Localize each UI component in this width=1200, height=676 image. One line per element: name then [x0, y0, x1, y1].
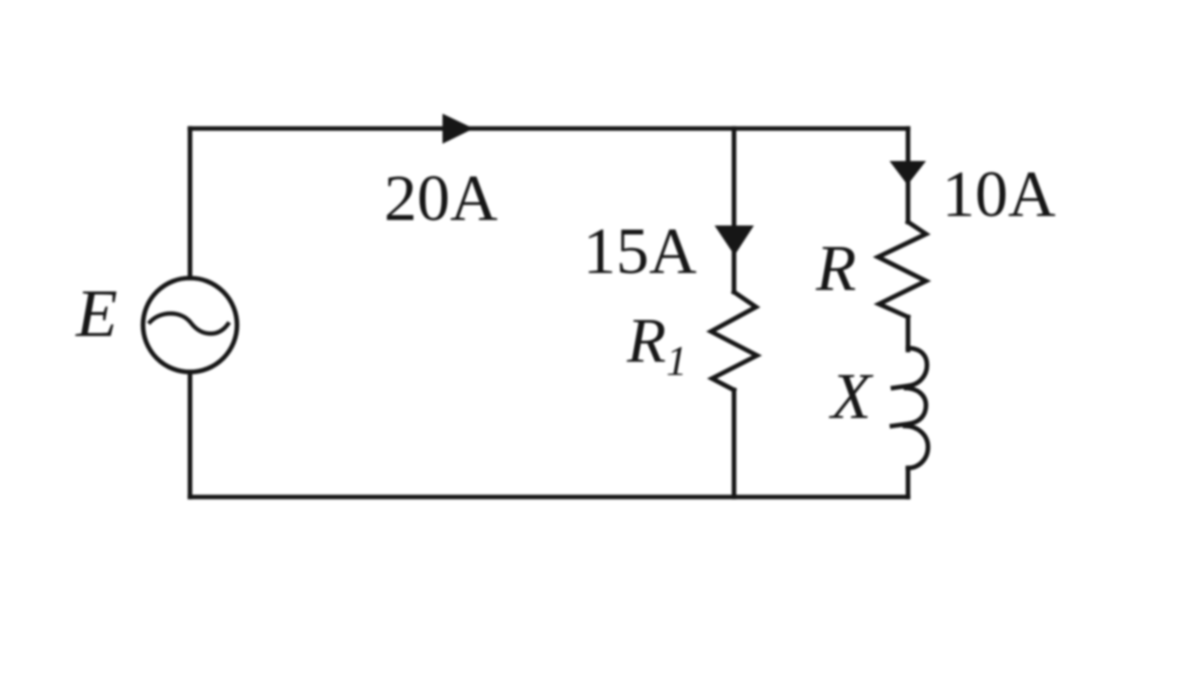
wire right middle	[906, 317, 911, 350]
svg-text:X: X	[828, 360, 874, 433]
svg-text:R: R	[815, 232, 856, 305]
arrow 10A down	[891, 162, 926, 185]
svg-text:10A: 10A	[942, 158, 1056, 231]
svg-text:15A: 15A	[583, 215, 697, 288]
wire right upper	[906, 129, 911, 223]
wire middle lower	[732, 390, 737, 497]
wire left lower	[188, 372, 193, 497]
arrow 20A right	[443, 115, 473, 144]
source E sine	[150, 314, 228, 334]
wire middle upper	[732, 129, 737, 293]
source E circle	[143, 278, 237, 372]
wire bottom	[190, 495, 908, 500]
inductor X	[892, 348, 928, 468]
resistor R1	[711, 292, 757, 390]
svg-text:20A: 20A	[384, 162, 498, 235]
wire right lower	[906, 468, 911, 497]
wire left upper	[188, 129, 193, 279]
resistor R	[878, 222, 926, 317]
svg-text:E: E	[75, 275, 118, 351]
wire top	[190, 126, 908, 131]
arrow 15A down	[716, 226, 754, 255]
svg-text:R1: R1	[626, 305, 687, 385]
